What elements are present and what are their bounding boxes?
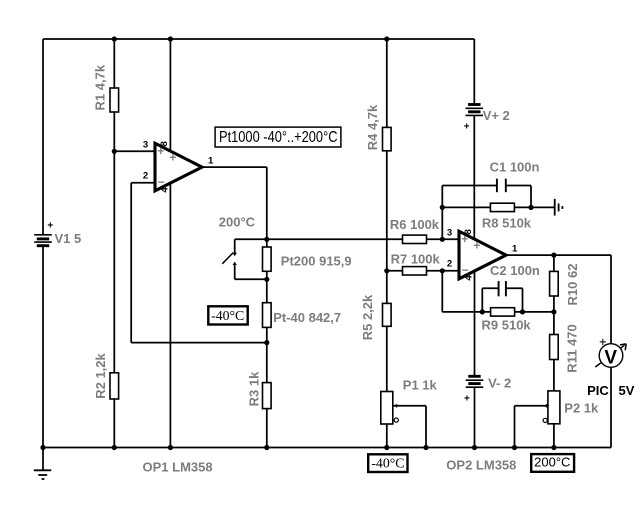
svg-text:R2 1,2k: R2 1,2k (93, 352, 108, 398)
svg-text:R1 4,7k: R1 4,7k (93, 64, 108, 110)
svg-text:R10 62: R10 62 (565, 264, 580, 306)
svg-text:R11 470: R11 470 (564, 324, 579, 372)
svg-text:OP1 LM358: OP1 LM358 (143, 460, 213, 475)
svg-text:-40°C: -40°C (371, 455, 404, 470)
svg-text:C2 100n: C2 100n (490, 263, 540, 278)
svg-text:+: + (47, 221, 53, 232)
svg-text:200°C: 200°C (219, 214, 256, 229)
svg-text:3: 3 (447, 227, 452, 238)
svg-text:PIC: PIC (587, 383, 609, 398)
svg-text:R9 510k: R9 510k (482, 317, 532, 332)
svg-text:Pt1000 -40°..+200°C: Pt1000 -40°..+200°C (219, 129, 338, 146)
svg-text:P2 1k: P2 1k (564, 400, 599, 415)
svg-text:+: + (473, 238, 480, 252)
svg-text:+: + (461, 232, 468, 246)
svg-text:-40°C: -40°C (211, 308, 244, 323)
svg-text:R3 1k: R3 1k (246, 371, 261, 406)
svg-text:R7 100k: R7 100k (391, 251, 441, 266)
svg-text:+: + (599, 335, 606, 349)
svg-text:R5 2,2k: R5 2,2k (360, 294, 375, 340)
svg-text:P1 1k: P1 1k (403, 377, 438, 392)
svg-text:200°C: 200°C (534, 454, 570, 469)
svg-text:R6 100k: R6 100k (390, 217, 440, 232)
svg-text:V: V (604, 347, 617, 368)
svg-text:2: 2 (143, 170, 148, 181)
svg-text:Pt-40 842,7: Pt-40 842,7 (273, 310, 341, 325)
svg-text:3: 3 (143, 139, 148, 150)
svg-text:Pt200 915,9: Pt200 915,9 (281, 253, 352, 268)
svg-text:1: 1 (512, 244, 518, 255)
svg-text:R4 4,7k: R4 4,7k (365, 104, 380, 150)
svg-text:+: + (157, 144, 164, 158)
svg-text:R8 510k: R8 510k (482, 216, 532, 231)
svg-text:+: + (464, 122, 470, 133)
svg-text:2: 2 (447, 258, 452, 269)
svg-text:V1 5: V1 5 (55, 231, 82, 246)
svg-text:C1 100n: C1 100n (490, 160, 540, 175)
svg-text:+: + (169, 150, 176, 164)
svg-text:V+ 2: V+ 2 (483, 108, 510, 123)
svg-text:−: − (462, 263, 469, 277)
svg-text:+: + (464, 393, 470, 404)
svg-text:OP2 LM358: OP2 LM358 (446, 458, 516, 473)
svg-text:5V: 5V (619, 383, 635, 398)
svg-text:V- 2: V- 2 (488, 376, 511, 391)
svg-text:−: − (158, 175, 165, 189)
svg-text:1: 1 (208, 156, 214, 167)
